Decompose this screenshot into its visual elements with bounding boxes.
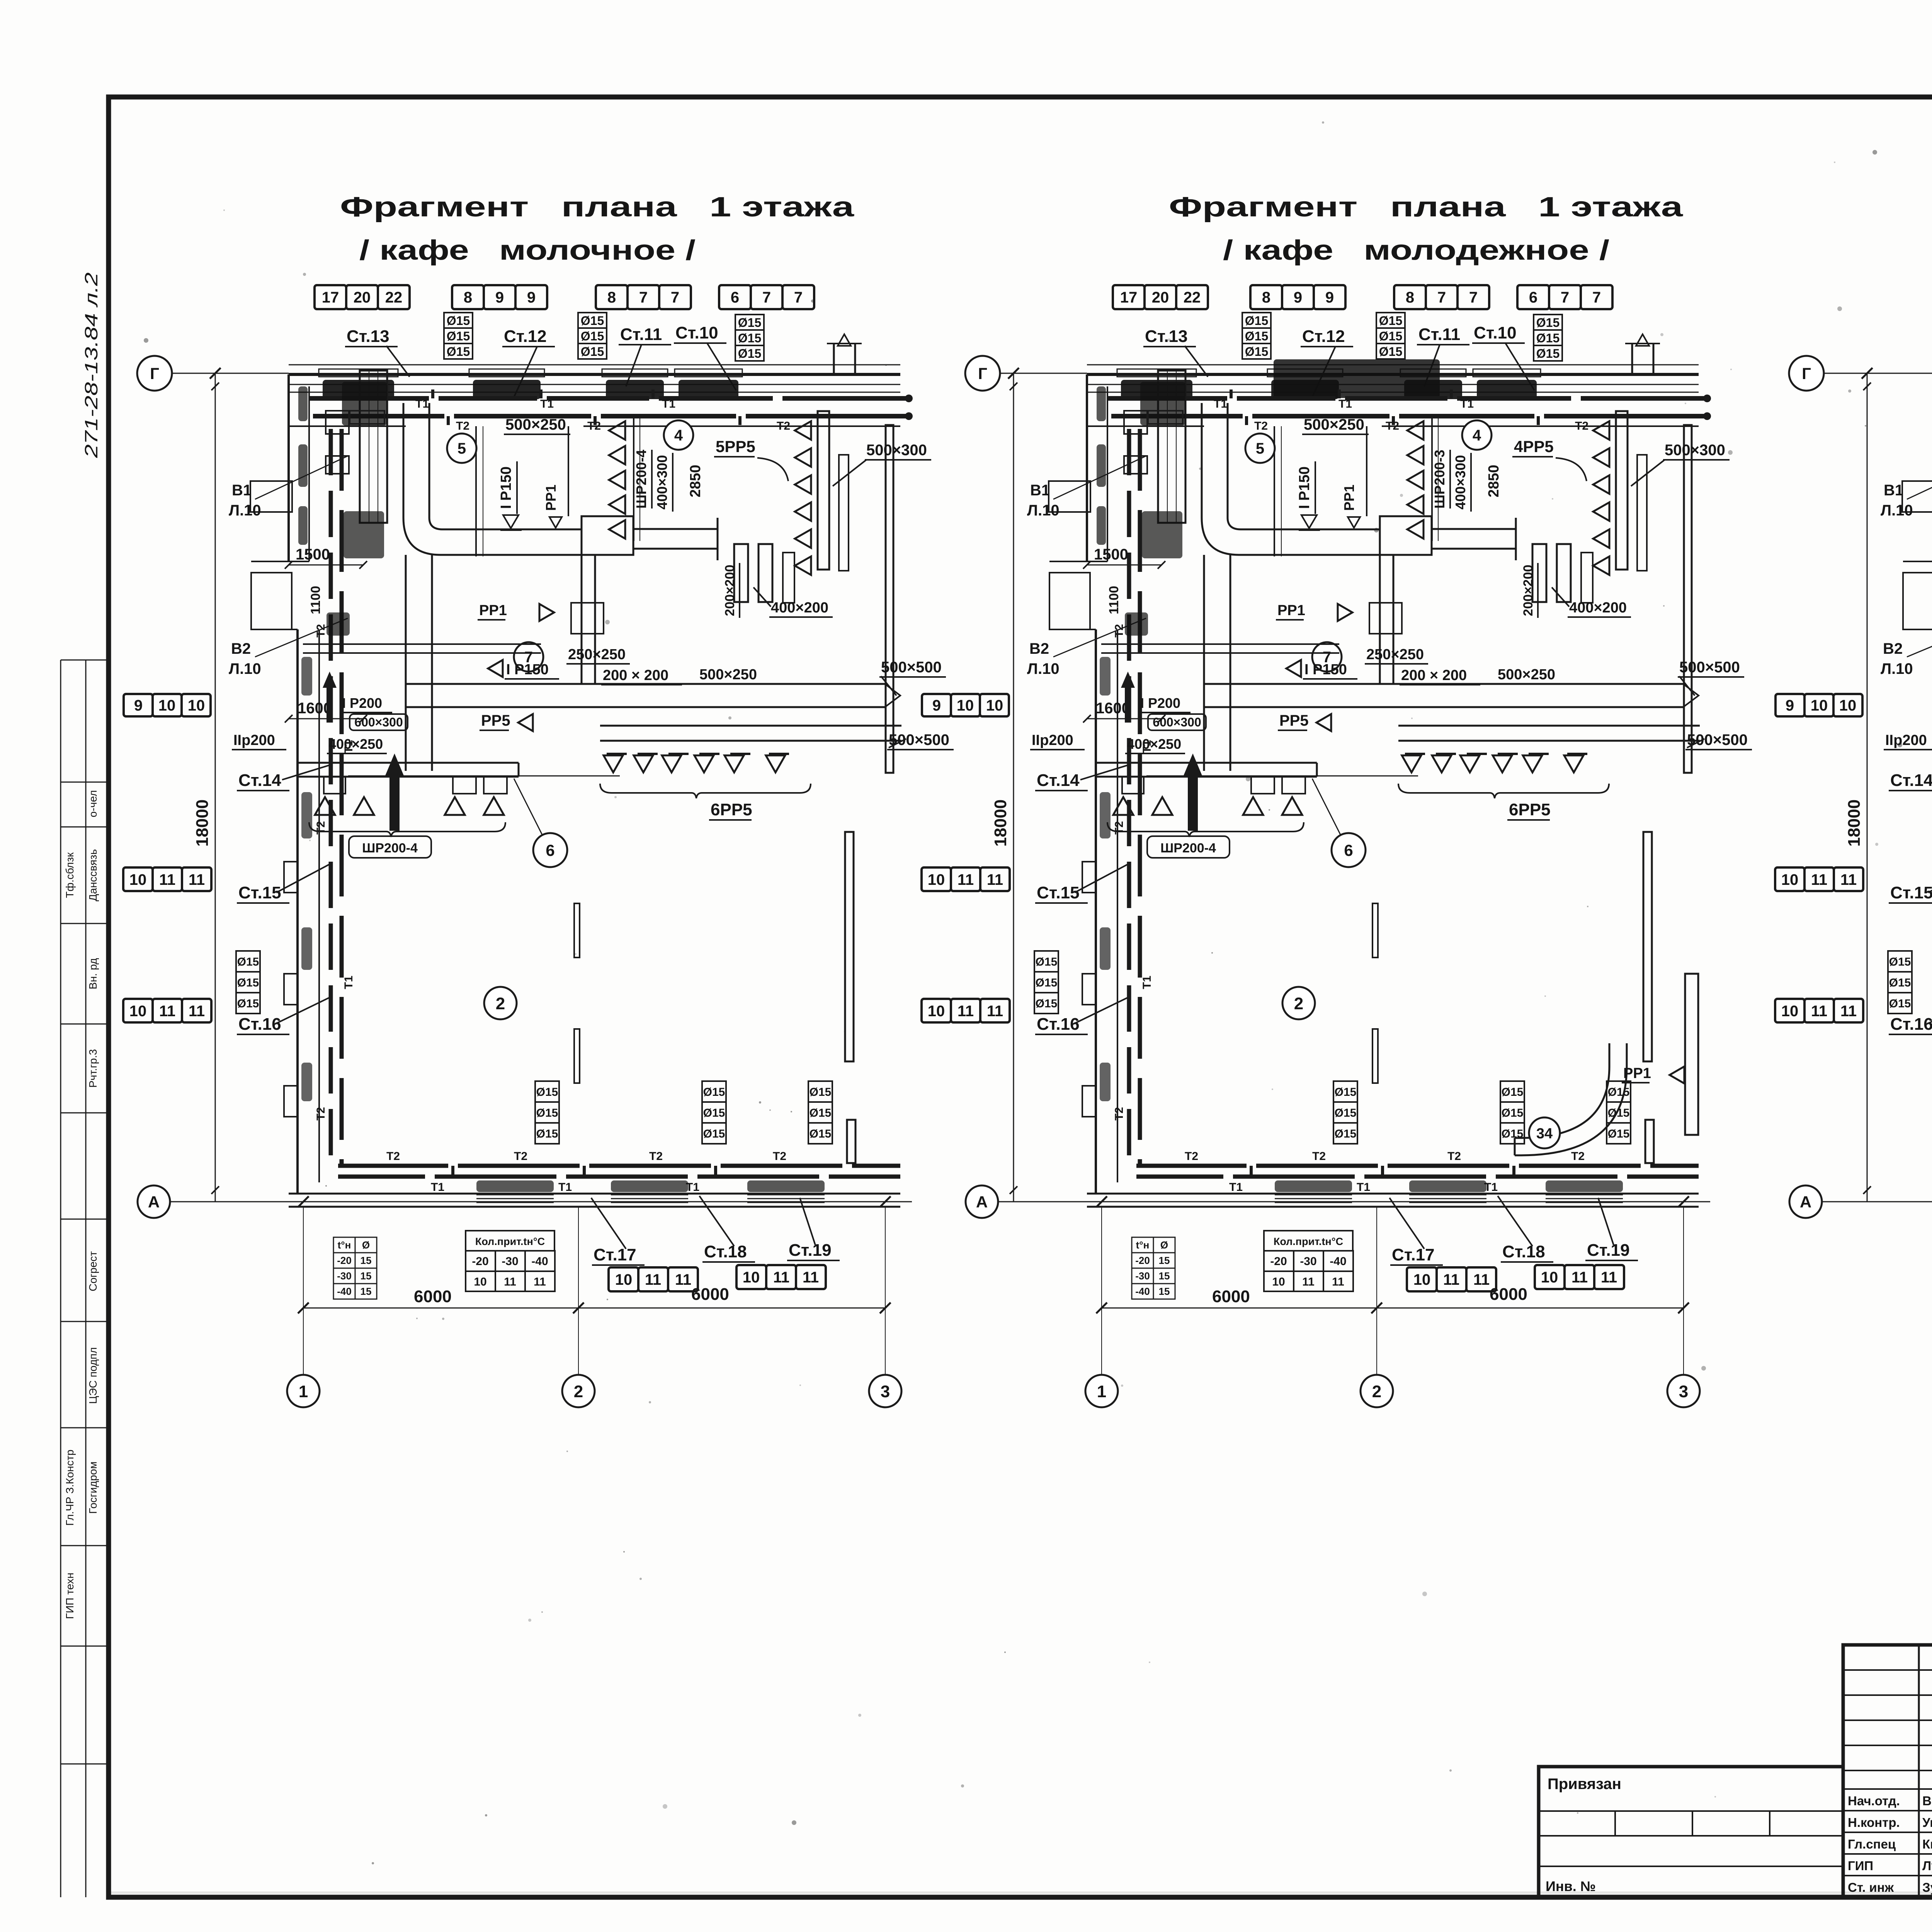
svg-text:11: 11	[189, 871, 205, 888]
svg-text:500×250: 500×250	[1498, 667, 1555, 683]
svg-text:РР5: РР5	[1279, 712, 1309, 729]
svg-text:7: 7	[794, 289, 803, 306]
svg-text:Ø15: Ø15	[1889, 997, 1911, 1010]
svg-text:Л.10: Л.10	[1881, 502, 1913, 519]
svg-text:Ø15: Ø15	[447, 329, 470, 343]
svg-text:11: 11	[957, 871, 974, 888]
svg-text:Ст.16: Ст.16	[1037, 1015, 1080, 1034]
svg-text:15: 15	[1159, 1255, 1170, 1266]
svg-text:Вепринский: Вепринский	[1922, 1794, 1932, 1808]
svg-text:Ø15: Ø15	[703, 1128, 725, 1140]
svg-text:10: 10	[158, 697, 176, 714]
svg-text:Госгидром: Госгидром	[87, 1461, 99, 1514]
svg-text:ГИП: ГИП	[1848, 1859, 1873, 1873]
svg-text:15: 15	[361, 1286, 372, 1297]
svg-text:Ø15: Ø15	[1502, 1107, 1524, 1119]
svg-text:6000: 6000	[414, 1287, 452, 1306]
svg-text:8: 8	[1262, 289, 1270, 306]
svg-text:РР5: РР5	[481, 712, 510, 729]
svg-text:200 × 200: 200 × 200	[603, 667, 668, 684]
svg-text:t°н: t°н	[338, 1239, 351, 1251]
svg-text:В2: В2	[231, 640, 251, 657]
svg-text:600×300: 600×300	[354, 715, 403, 729]
svg-text:3: 3	[1679, 1382, 1688, 1401]
svg-text:I Р200: I Р200	[342, 695, 382, 711]
svg-text:Ст.15: Ст.15	[1037, 883, 1080, 902]
svg-text:Ст.13: Ст.13	[1145, 327, 1188, 346]
svg-text:500×500: 500×500	[881, 659, 942, 676]
svg-text:5РР5: 5РР5	[716, 437, 755, 456]
svg-text:Ø15: Ø15	[1379, 345, 1402, 359]
svg-text:Ø15: Ø15	[581, 329, 604, 343]
svg-text:Т2: Т2	[386, 1150, 400, 1163]
svg-text:400×250: 400×250	[1127, 736, 1181, 752]
svg-text:10: 10	[1272, 1276, 1285, 1288]
svg-text:Т2: Т2	[315, 821, 327, 835]
svg-text:7: 7	[671, 289, 679, 306]
svg-text:/ кафе молодежное /: / кафе молодежное /	[1223, 235, 1609, 266]
svg-text:500×250: 500×250	[1304, 416, 1364, 433]
svg-text:9: 9	[134, 697, 143, 714]
svg-text:Инв. №: Инв. №	[1546, 1878, 1596, 1894]
svg-text:10: 10	[986, 697, 1003, 714]
svg-text:1100: 1100	[308, 586, 323, 614]
svg-text:1500: 1500	[1094, 546, 1128, 563]
svg-text:Г: Г	[150, 364, 159, 383]
svg-text:Ст.12: Ст.12	[504, 327, 547, 346]
svg-text:15: 15	[1159, 1270, 1170, 1282]
svg-text:I Р150: I Р150	[498, 466, 514, 509]
svg-text:-30: -30	[502, 1255, 518, 1268]
svg-text:10: 10	[129, 1003, 147, 1020]
svg-text:Т2: Т2	[514, 1150, 527, 1163]
svg-text:ШР200-4: ШР200-4	[362, 841, 418, 855]
svg-text:Ø: Ø	[1160, 1239, 1168, 1251]
svg-text:Ø15: Ø15	[1889, 956, 1911, 968]
svg-text:Т2: Т2	[456, 420, 469, 432]
svg-text:9: 9	[1325, 289, 1334, 306]
svg-text:Ø15: Ø15	[1536, 347, 1560, 361]
svg-text:9: 9	[495, 289, 504, 306]
svg-text:9: 9	[932, 697, 941, 714]
svg-text:1100: 1100	[1107, 586, 1121, 614]
svg-text:11: 11	[504, 1276, 516, 1288]
svg-text:-20: -20	[1135, 1255, 1150, 1266]
svg-text:20: 20	[1152, 289, 1169, 306]
svg-text:18000: 18000	[1845, 799, 1864, 847]
svg-text:Согрест: Согрест	[87, 1251, 99, 1291]
svg-text:Ст.17: Ст.17	[1392, 1245, 1435, 1264]
svg-text:500×500: 500×500	[1687, 731, 1748, 748]
svg-text:Л.10: Л.10	[229, 502, 261, 519]
svg-text:Ст.14: Ст.14	[1037, 771, 1080, 790]
svg-text:-30: -30	[1300, 1255, 1316, 1268]
svg-text:Ø15: Ø15	[1379, 314, 1402, 328]
svg-text:Ст.10: Ст.10	[675, 323, 718, 342]
svg-text:Ø15: Ø15	[1036, 956, 1058, 968]
svg-text:I Р150: I Р150	[1304, 662, 1347, 678]
svg-text:Ø15: Ø15	[237, 976, 259, 989]
svg-text:15: 15	[1159, 1286, 1170, 1297]
svg-text:20: 20	[354, 289, 371, 306]
svg-text:6РР5: 6РР5	[711, 800, 752, 819]
svg-text:ГИП техн: ГИП техн	[64, 1573, 76, 1619]
svg-text:4: 4	[1473, 427, 1481, 444]
svg-text:Ø15: Ø15	[1379, 329, 1402, 343]
svg-text:Т1: Т1	[1229, 1181, 1243, 1194]
svg-text:9: 9	[1294, 289, 1302, 306]
svg-text:IIр200: IIр200	[1885, 732, 1927, 748]
svg-text:17: 17	[1120, 289, 1138, 306]
svg-text:22: 22	[385, 289, 403, 306]
svg-text:18000: 18000	[193, 799, 212, 847]
svg-text:Ø15: Ø15	[1608, 1128, 1630, 1140]
svg-text:о-чел: о-чел	[87, 790, 99, 817]
svg-text:200×200: 200×200	[723, 565, 737, 616]
svg-text:Ст.11: Ст.11	[1418, 325, 1460, 344]
svg-text:Т2: Т2	[773, 1150, 786, 1163]
svg-text:10: 10	[928, 1003, 945, 1020]
svg-text:Ст.19: Ст.19	[789, 1241, 832, 1260]
svg-text:Ст.14: Ст.14	[1890, 771, 1932, 790]
svg-text:11: 11	[1811, 1003, 1827, 1020]
svg-text:В2: В2	[1883, 640, 1903, 657]
svg-text:Ø15: Ø15	[703, 1086, 725, 1099]
svg-text:Т2: Т2	[1254, 420, 1268, 432]
svg-text:Ø15: Ø15	[1335, 1107, 1357, 1119]
svg-text:Ø15: Ø15	[1536, 331, 1560, 345]
svg-text:ЦЭС подпл: ЦЭС подпл	[87, 1347, 99, 1404]
svg-text:8: 8	[1406, 289, 1414, 306]
svg-text:РР1: РР1	[1341, 485, 1357, 511]
svg-text:Ø: Ø	[362, 1239, 370, 1251]
svg-text:34: 34	[1536, 1126, 1553, 1142]
svg-text:11: 11	[159, 871, 175, 888]
svg-text:10: 10	[1781, 871, 1799, 888]
svg-text:Ø15: Ø15	[536, 1107, 558, 1119]
svg-text:10: 10	[1781, 1003, 1799, 1020]
svg-text:А: А	[1800, 1193, 1811, 1211]
svg-text:6: 6	[1344, 841, 1353, 859]
svg-text:Кол.прит.tн°С: Кол.прит.tн°С	[475, 1236, 545, 1247]
svg-text:РР1: РР1	[479, 602, 507, 619]
svg-text:Л.10: Л.10	[1027, 502, 1060, 519]
svg-text:10: 10	[1541, 1269, 1558, 1286]
svg-text:Т1: Т1	[1214, 398, 1227, 410]
svg-text:3: 3	[881, 1382, 890, 1401]
svg-text:Ст.15: Ст.15	[238, 883, 281, 902]
svg-text:I Р200: I Р200	[1140, 695, 1180, 711]
svg-text:11: 11	[957, 1003, 974, 1020]
svg-text:Т1: Т1	[558, 1181, 572, 1194]
svg-text:7: 7	[639, 289, 648, 306]
svg-text:Ст.17: Ст.17	[594, 1245, 636, 1264]
svg-text:Ø15: Ø15	[1502, 1086, 1524, 1099]
svg-text:11: 11	[1571, 1269, 1588, 1286]
svg-text:7: 7	[1437, 289, 1446, 306]
svg-text:Ст.16: Ст.16	[238, 1015, 281, 1034]
svg-text:Рчт.гр.3: Рчт.гр.3	[87, 1049, 99, 1088]
svg-text:400×250: 400×250	[328, 736, 383, 752]
svg-text:Гл.спец: Гл.спец	[1848, 1837, 1896, 1851]
svg-text:400×300: 400×300	[654, 455, 670, 509]
svg-text:Т2: Т2	[1113, 1107, 1126, 1121]
svg-text:6: 6	[546, 841, 554, 859]
svg-text:Ø15: Ø15	[1036, 976, 1058, 989]
svg-text:11: 11	[645, 1271, 661, 1288]
svg-text:9: 9	[1786, 697, 1794, 714]
svg-text:Т1: Т1	[1338, 398, 1352, 410]
svg-text:IIр200: IIр200	[233, 732, 275, 748]
svg-text:10: 10	[743, 1269, 760, 1286]
svg-text:2: 2	[1372, 1382, 1381, 1401]
svg-text:Т1: Т1	[1460, 398, 1474, 410]
svg-text:Ст.10: Ст.10	[1474, 323, 1517, 342]
svg-text:Ø15: Ø15	[1245, 314, 1268, 328]
svg-text:Т1: Т1	[540, 398, 554, 410]
svg-text:Гл.ЧР З.Констр: Гл.ЧР З.Констр	[64, 1449, 76, 1526]
svg-text:9: 9	[527, 289, 536, 306]
svg-text:Т2: Т2	[1113, 821, 1126, 835]
svg-text:271-28-13.84 л.2: 271-28-13.84 л.2	[81, 272, 101, 458]
svg-text:5: 5	[457, 440, 466, 457]
svg-text:8: 8	[464, 289, 472, 306]
svg-text:Лутьянова: Лутьянова	[1922, 1859, 1932, 1873]
svg-text:Привязан: Привязан	[1548, 1776, 1621, 1793]
svg-text:Ø15: Ø15	[738, 331, 761, 345]
svg-text:Ø15: Ø15	[237, 956, 259, 968]
svg-text:t°н: t°н	[1136, 1239, 1150, 1251]
svg-text:10: 10	[1413, 1271, 1431, 1288]
svg-text:Ø15: Ø15	[810, 1086, 832, 1099]
svg-text:Ст.18: Ст.18	[704, 1242, 747, 1261]
svg-text:11: 11	[1443, 1271, 1459, 1288]
svg-text:-40: -40	[337, 1286, 352, 1297]
svg-text:6000: 6000	[691, 1285, 729, 1304]
svg-text:11: 11	[773, 1269, 789, 1286]
svg-text:Ø15: Ø15	[581, 314, 604, 328]
svg-text:-20: -20	[1270, 1255, 1287, 1268]
svg-text:200×200: 200×200	[1521, 565, 1536, 616]
svg-text:Ø15: Ø15	[447, 345, 470, 359]
svg-text:Н.контр.: Н.контр.	[1848, 1815, 1900, 1830]
svg-text:15: 15	[361, 1270, 372, 1282]
svg-text:-30: -30	[337, 1270, 352, 1282]
svg-text:Т2: Т2	[315, 1107, 327, 1121]
svg-text:400×200: 400×200	[1569, 600, 1627, 616]
svg-text:Данссвязь: Данссвязь	[87, 849, 99, 901]
svg-text:2850: 2850	[1486, 465, 1502, 498]
svg-text:11: 11	[987, 1003, 1003, 1020]
svg-text:11: 11	[159, 1003, 175, 1020]
svg-text:6: 6	[731, 289, 739, 306]
svg-text:Т2: Т2	[649, 1150, 663, 1163]
svg-text:10: 10	[928, 871, 945, 888]
svg-text:15: 15	[361, 1255, 372, 1266]
svg-text:11: 11	[987, 871, 1003, 888]
svg-text:10: 10	[1811, 697, 1828, 714]
svg-text:-20: -20	[337, 1255, 352, 1266]
svg-text:Ст.12: Ст.12	[1302, 327, 1345, 346]
svg-text:РР1: РР1	[1277, 602, 1305, 619]
svg-text:Ø15: Ø15	[536, 1086, 558, 1099]
svg-text:-40: -40	[1135, 1286, 1150, 1297]
svg-text:А: А	[148, 1193, 160, 1211]
svg-text:Г: Г	[1802, 364, 1811, 383]
svg-text:-40: -40	[1330, 1255, 1346, 1268]
svg-text:17: 17	[322, 289, 339, 306]
svg-text:ШР200-4: ШР200-4	[1160, 841, 1216, 855]
svg-text:Ø15: Ø15	[536, 1128, 558, 1140]
svg-text:11: 11	[1332, 1276, 1344, 1288]
svg-text:Тф.сблзк: Тф.сблзк	[64, 852, 76, 898]
svg-text:500×300: 500×300	[866, 442, 927, 459]
svg-text:-30: -30	[1135, 1270, 1150, 1282]
svg-text:Т1: Т1	[662, 398, 675, 410]
svg-text:500×250: 500×250	[699, 667, 757, 683]
svg-text:Ø15: Ø15	[738, 316, 761, 330]
svg-text:Т1: Т1	[415, 398, 429, 410]
svg-text:Ø15: Ø15	[1335, 1128, 1357, 1140]
svg-text:11: 11	[534, 1276, 546, 1288]
svg-text:Л.10: Л.10	[229, 660, 261, 677]
svg-text:11: 11	[1473, 1271, 1490, 1288]
svg-text:Ст.18: Ст.18	[1502, 1242, 1545, 1261]
svg-text:Г: Г	[978, 364, 987, 383]
svg-text:Ø15: Ø15	[738, 347, 761, 361]
svg-text:6РР5: 6РР5	[1509, 800, 1551, 819]
svg-text:4РР5: 4РР5	[1514, 437, 1554, 456]
svg-text:Ø15: Ø15	[581, 345, 604, 359]
svg-text:Ст.19: Ст.19	[1587, 1241, 1630, 1260]
svg-text:Ø15: Ø15	[810, 1128, 832, 1140]
svg-text:7: 7	[1592, 289, 1601, 306]
svg-text:500×500: 500×500	[1679, 659, 1740, 676]
svg-text:Т2: Т2	[1312, 1150, 1326, 1163]
svg-text:11: 11	[1840, 871, 1857, 888]
svg-text:18000: 18000	[991, 799, 1010, 847]
svg-text:Л.10: Л.10	[1027, 660, 1060, 677]
svg-text:А: А	[976, 1193, 988, 1211]
svg-text:Ø15: Ø15	[1245, 329, 1268, 343]
svg-text:Нач.отд.: Нач.отд.	[1848, 1794, 1900, 1808]
svg-text:2: 2	[1294, 994, 1303, 1013]
svg-text:8: 8	[607, 289, 616, 306]
svg-text:Ø15: Ø15	[703, 1107, 725, 1119]
svg-text:/ кафе молочное /: / кафе молочное /	[359, 235, 696, 266]
svg-text:500×300: 500×300	[1665, 442, 1725, 459]
svg-text:11: 11	[803, 1269, 819, 1286]
svg-text:Ø15: Ø15	[1608, 1086, 1630, 1099]
svg-text:Вн. рд: Вн. рд	[87, 958, 99, 990]
svg-text:I Р150: I Р150	[506, 662, 549, 678]
svg-text:7: 7	[1561, 289, 1569, 306]
svg-text:Кол.прит.tн°С: Кол.прит.tн°С	[1274, 1236, 1343, 1247]
svg-text:ШР200-3: ШР200-3	[1432, 450, 1447, 509]
svg-text:Л.10: Л.10	[1881, 660, 1913, 677]
svg-text:Ø15: Ø15	[1245, 345, 1268, 359]
svg-text:1: 1	[1097, 1382, 1106, 1401]
svg-text:Уварова: Уварова	[1922, 1815, 1932, 1830]
svg-text:6: 6	[1529, 289, 1537, 306]
svg-text:11: 11	[1811, 871, 1827, 888]
svg-text:11: 11	[675, 1271, 691, 1288]
svg-text:250×250: 250×250	[1366, 646, 1424, 663]
svg-text:Фрагмент плана 1 этажа: Фрагмент плана 1 этажа	[340, 192, 854, 223]
svg-text:7: 7	[1469, 289, 1478, 306]
svg-text:Т2: Т2	[1571, 1150, 1585, 1163]
svg-text:400×300: 400×300	[1452, 455, 1468, 509]
svg-text:Ø15: Ø15	[1889, 976, 1911, 989]
svg-text:Зудина: Зудина	[1922, 1880, 1932, 1895]
svg-text:Т1: Т1	[342, 976, 355, 989]
svg-text:Ø15: Ø15	[447, 314, 470, 328]
svg-text:11: 11	[1302, 1276, 1315, 1288]
svg-text:Ø15: Ø15	[237, 997, 259, 1010]
svg-text:10: 10	[615, 1271, 633, 1288]
svg-text:Ст. инж: Ст. инж	[1848, 1880, 1894, 1895]
svg-text:IIр200: IIр200	[1032, 732, 1073, 748]
svg-text:400×200: 400×200	[771, 600, 828, 616]
svg-text:10: 10	[474, 1276, 486, 1288]
svg-text:Т2: Т2	[1185, 1150, 1198, 1163]
svg-text:Кириллова: Кириллова	[1922, 1837, 1932, 1851]
svg-text:ШР200-4: ШР200-4	[633, 450, 649, 509]
svg-text:2: 2	[496, 994, 505, 1013]
svg-text:Т2: Т2	[1447, 1150, 1461, 1163]
svg-text:Ø15: Ø15	[1335, 1086, 1357, 1099]
svg-text:22: 22	[1184, 289, 1201, 306]
svg-text:10: 10	[1839, 697, 1857, 714]
svg-text:Ø15: Ø15	[1036, 997, 1058, 1010]
svg-text:I Р150: I Р150	[1296, 466, 1313, 509]
svg-text:11: 11	[189, 1003, 205, 1020]
svg-text:Т1: Т1	[431, 1181, 444, 1194]
svg-text:10: 10	[188, 697, 205, 714]
svg-text:2850: 2850	[687, 465, 704, 498]
svg-text:Ст.11: Ст.11	[620, 325, 662, 344]
svg-text:РР1: РР1	[543, 485, 559, 511]
svg-text:Ст.16: Ст.16	[1890, 1015, 1932, 1034]
svg-text:Т1: Т1	[1357, 1181, 1370, 1194]
svg-text:500×500: 500×500	[889, 731, 949, 748]
svg-text:-40: -40	[531, 1255, 548, 1268]
svg-text:1500: 1500	[296, 546, 330, 563]
svg-text:10: 10	[129, 871, 147, 888]
svg-text:6000: 6000	[1212, 1287, 1250, 1306]
svg-text:В2: В2	[1029, 640, 1049, 657]
svg-text:-20: -20	[472, 1255, 488, 1268]
svg-text:5: 5	[1256, 440, 1264, 457]
svg-text:РР1: РР1	[1623, 1065, 1651, 1082]
svg-text:6000: 6000	[1490, 1285, 1527, 1304]
svg-text:11: 11	[1840, 1003, 1857, 1020]
svg-text:Ст.14: Ст.14	[238, 771, 281, 790]
svg-text:7: 7	[762, 289, 771, 306]
svg-text:4: 4	[674, 427, 683, 444]
svg-text:Ø15: Ø15	[1536, 316, 1560, 330]
svg-text:250×250: 250×250	[568, 646, 626, 663]
svg-text:Ø15: Ø15	[810, 1107, 832, 1119]
svg-text:600×300: 600×300	[1153, 715, 1201, 729]
svg-text:В1: В1	[1030, 482, 1050, 499]
svg-text:500×250: 500×250	[505, 416, 566, 433]
svg-text:1: 1	[299, 1382, 308, 1401]
svg-text:Фрагмент плана 1 этажа: Фрагмент плана 1 этажа	[1169, 192, 1683, 223]
svg-text:2: 2	[574, 1382, 583, 1401]
svg-text:11: 11	[1601, 1269, 1617, 1286]
svg-text:В1: В1	[232, 482, 252, 499]
